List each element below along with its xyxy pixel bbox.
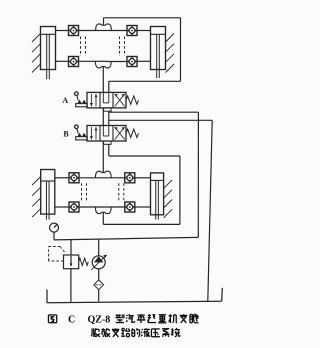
svg-text:C: C [68, 315, 75, 326]
svg-text:B: B [63, 130, 69, 139]
svg-text:QZ-8: QZ-8 [88, 315, 111, 326]
svg-text:A: A [62, 96, 68, 105]
